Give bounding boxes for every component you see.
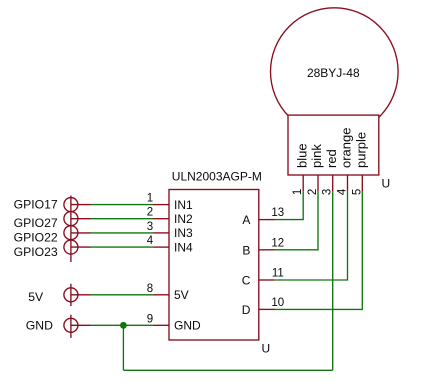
motor pin 4 stub xyxy=(347,175,349,191)
U1 pin 8 stub xyxy=(154,294,170,296)
svg-text:GND: GND xyxy=(26,319,53,333)
connector J3 GPIO22 circle xyxy=(64,226,78,240)
wire 5V to pin8 xyxy=(91,294,154,296)
connector J2 GPIO27 circle xyxy=(64,212,78,226)
wire GPIO27 to IN2 xyxy=(91,218,154,220)
U1 pin 10 stub (output D) xyxy=(259,308,275,310)
svg-text:blue: blue xyxy=(294,143,309,168)
svg-text:GPIO23: GPIO23 xyxy=(14,245,58,259)
svg-text:4: 4 xyxy=(147,235,154,247)
svg-text:A: A xyxy=(242,213,250,227)
connector J5 5V vertical bar xyxy=(70,284,72,306)
svg-text:GPIO22: GPIO22 xyxy=(14,230,58,244)
connector J1 pin stub xyxy=(71,204,91,206)
wire output A to motor pin 1 xyxy=(275,191,304,219)
svg-text:5V: 5V xyxy=(174,288,189,302)
svg-text:U: U xyxy=(262,342,271,356)
connector J1 GPIO17 vertical bar xyxy=(70,196,72,263)
svg-text:B: B xyxy=(242,243,250,257)
svg-text:2: 2 xyxy=(307,189,319,195)
motor pin 1 stub xyxy=(302,175,304,191)
U1 pin 1 stub xyxy=(154,204,170,206)
connector J1 GPIO17 circle xyxy=(64,198,78,212)
motor pin 2 stub xyxy=(317,175,319,191)
svg-text:12: 12 xyxy=(271,237,284,249)
svg-text:C: C xyxy=(242,274,251,288)
U1 pin 11 stub (output C) xyxy=(259,279,275,281)
U1 pin 13 stub (output A) xyxy=(259,219,275,221)
U1 pin 9 stub xyxy=(154,324,170,326)
wire GND vertical riser to motor pin 3 xyxy=(332,191,334,370)
svg-text:IN3: IN3 xyxy=(174,226,193,240)
svg-text:IN4: IN4 xyxy=(174,240,193,254)
svg-text:red: red xyxy=(324,149,339,168)
connector J3 pin stub xyxy=(71,232,91,234)
svg-text:pink: pink xyxy=(309,144,324,168)
wire output C to motor pin 4 xyxy=(275,191,348,280)
wire GND bottom horizontal xyxy=(123,369,332,371)
node GND junction xyxy=(120,322,127,329)
connector J6 pin stub xyxy=(71,324,91,326)
wire output B to motor pin 2 xyxy=(275,191,319,250)
svg-text:10: 10 xyxy=(271,297,284,309)
svg-text:13: 13 xyxy=(271,207,284,219)
connector J5 5V circle xyxy=(64,288,78,302)
op-amp U1 ULN2003AGP-M body xyxy=(169,190,259,341)
svg-text:28BYJ-48: 28BYJ-48 xyxy=(307,66,360,80)
svg-text:GPIO17: GPIO17 xyxy=(14,198,58,212)
wire GND to pin9 xyxy=(91,324,154,326)
svg-text:11: 11 xyxy=(272,268,284,280)
svg-text:3: 3 xyxy=(322,189,334,195)
svg-text:IN1: IN1 xyxy=(174,198,193,212)
svg-text:5: 5 xyxy=(351,189,363,195)
motor M1 28BYJ-48 body circle xyxy=(271,8,399,136)
wire GPIO23 to IN4 xyxy=(91,246,154,248)
svg-text:8: 8 xyxy=(147,283,153,295)
wire GND junction drop xyxy=(122,325,124,370)
motor connector body rect xyxy=(288,115,379,175)
connector J4 pin stub xyxy=(71,246,91,248)
svg-text:2: 2 xyxy=(147,207,153,219)
connector J5 pin stub xyxy=(71,294,91,296)
svg-text:9: 9 xyxy=(147,313,153,325)
svg-text:purple: purple xyxy=(354,132,369,168)
U1 pin 12 stub (output B) xyxy=(259,249,275,251)
wire GPIO17 to IN1 xyxy=(91,204,154,206)
svg-text:1: 1 xyxy=(292,189,304,195)
svg-text:IN2: IN2 xyxy=(174,212,193,226)
motor pin 5 stub xyxy=(361,175,363,191)
U1 pin 2 stub xyxy=(154,218,170,220)
svg-text:3: 3 xyxy=(147,221,153,233)
U1 pin 4 stub xyxy=(154,246,170,248)
svg-text:D: D xyxy=(242,303,251,317)
wire output D to motor pin 5 xyxy=(275,191,363,309)
U1 pin 3 stub xyxy=(154,232,170,234)
svg-text:1: 1 xyxy=(147,193,153,205)
motor pin 3 stub xyxy=(332,175,334,191)
svg-text:GND: GND xyxy=(174,319,201,333)
svg-text:U: U xyxy=(382,177,391,191)
svg-text:4: 4 xyxy=(337,188,349,195)
wire GPIO22 to IN3 xyxy=(91,232,154,234)
svg-text:5V: 5V xyxy=(28,290,44,304)
svg-text:GPIO27: GPIO27 xyxy=(14,216,58,230)
connector J2 pin stub xyxy=(71,218,91,220)
svg-text:orange: orange xyxy=(339,128,354,168)
svg-text:ULN2003AGP-M: ULN2003AGP-M xyxy=(172,170,262,184)
connector J6 GND vertical bar xyxy=(70,315,72,338)
connector J6 GND circle xyxy=(64,318,78,332)
connector J4 GPIO23 circle xyxy=(64,240,78,254)
